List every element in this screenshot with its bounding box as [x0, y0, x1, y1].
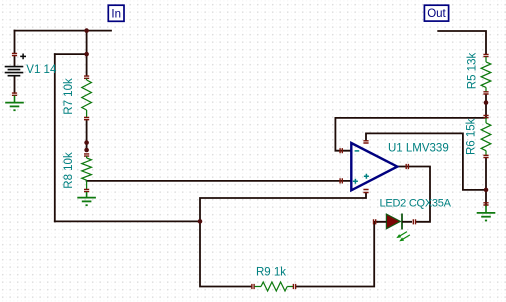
- svg-text:LED2 CQX35A: LED2 CQX35A: [380, 197, 452, 209]
- svg-text:R8 10k: R8 10k: [63, 152, 75, 189]
- wire battery bottom to ground: [14, 57, 16, 67]
- wire R7 bottom to junction dots: [86, 120, 88, 150]
- battery pin tick top: [12, 53, 17, 55]
- wire battery top drop: [14, 31, 16, 54]
- ground right column: [485, 206, 487, 213]
- node junction dot R8 top: [84, 148, 89, 153]
- wire from node down to R9 rail: [200, 221, 251, 286]
- LED pin tick cathode: [413, 219, 415, 224]
- wire R5 bottom to junction: [485, 95, 487, 118]
- svg-text:Out: Out: [427, 8, 446, 20]
- node junction dot R6 bottom: [484, 188, 489, 193]
- node junction dot rail2: [84, 52, 89, 57]
- wire R6 bottom to junction and ground: [485, 158, 487, 206]
- svg-text:R7 10k: R7 10k: [63, 78, 75, 115]
- svg-text:R9 1k: R9 1k: [256, 267, 286, 279]
- resistor R5 13k: [481, 54, 491, 94]
- LED light arrows: [396, 232, 410, 242]
- op-amp pin tick output: [406, 164, 408, 169]
- op-amp pin tick V+ top: [363, 141, 368, 143]
- LED pin tick anode: [374, 219, 376, 224]
- svg-text:V1 14: V1 14: [26, 64, 57, 76]
- op-amp pin tick V- bottom: [363, 190, 368, 193]
- svg-text:R6 15k: R6 15k: [466, 118, 478, 155]
- battery pin tick bottom: [12, 93, 17, 95]
- node junction dot top rail: [84, 28, 89, 33]
- battery V1: [5, 54, 26, 76]
- wire R7 top from junction: [86, 31, 88, 76]
- node junction dot R5/R6 top: [484, 100, 489, 105]
- wire rail B : op-amp V+ to R5/R6 junction: [366, 133, 486, 190]
- wire rail2 to R7 column: [55, 53, 87, 55]
- op-amp pin tick noninverting: [340, 178, 342, 183]
- wire left long vertical: [54, 54, 56, 221]
- wire op-amp output to LED cathode: [398, 167, 430, 222]
- LED2 CQX35A: [377, 214, 412, 230]
- node junction dot R7 bottom: [84, 140, 89, 145]
- svg-text:R5 13k: R5 13k: [466, 53, 478, 90]
- node In flag: [108, 5, 124, 21]
- op-amp U1 LMV339: [351, 143, 397, 190]
- node Out flag: [424, 5, 448, 21]
- wire Out flag rail: [438, 31, 486, 54]
- wire bottom-left rail: [55, 220, 200, 222]
- pin tick ground right: [483, 203, 488, 205]
- wire inverting input drop: [335, 118, 351, 151]
- svg-text:U1 LMV339: U1 LMV339: [388, 142, 449, 154]
- op-amp pin tick inverting: [340, 148, 342, 153]
- resistor R6 15k: [481, 116, 491, 158]
- resistor R9 1k: [252, 282, 296, 291]
- resistor R7 10k: [82, 76, 92, 120]
- wire noninverting input rail from R8: [87, 180, 351, 182]
- wire rail A : inverting input to R6 top: [335, 117, 486, 119]
- wire top rail from battery to In flag: [15, 30, 112, 32]
- wire R9 right to LED anode riser: [296, 222, 377, 287]
- ground under battery: [14, 96, 16, 103]
- node junction dot bottom rail: [198, 219, 203, 224]
- wire from node to op-amp V- pin: [200, 193, 366, 221]
- svg-text:In: In: [111, 8, 121, 20]
- ground under R8: [86, 192, 88, 197]
- resistor R8 10k: [82, 154, 92, 192]
